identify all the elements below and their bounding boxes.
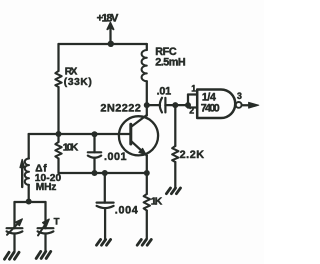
wire: RX bottom to base node — [57, 87, 59, 134]
wire: base line — [29, 133, 131, 135]
svg-text:.004: .004 — [115, 205, 138, 217]
wire: .01 to gate input — [165, 104, 188, 106]
svg-text:2: 2 — [189, 105, 194, 115]
power +18V lead — [109, 30, 111, 45]
arrow: left trimmer adjust — [7, 222, 20, 235]
capacitor C .001 straight plate — [88, 151, 101, 153]
transistor Q1 collector stroke — [131, 115, 147, 127]
svg-text:1K: 1K — [151, 196, 163, 207]
transistor Q1 base bar — [129, 124, 132, 144]
svg-text:(33K): (33K) — [64, 77, 92, 88]
svg-text:2N2222: 2N2222 — [100, 102, 140, 114]
capacitor C .004 curved plate — [97, 206, 114, 208]
ground: 2.2K — [166, 188, 180, 194]
transistor Q1 emitter stroke — [131, 141, 147, 156]
svg-text:7400: 7400 — [201, 102, 220, 114]
wire: 1K to ground — [146, 211, 148, 239]
arrow: crystal tuning — [21, 166, 23, 187]
capacitor C .001 curved plate — [88, 156, 101, 158]
capacitor: right trimmer T straight plate — [38, 227, 54, 229]
capacitor C .01 straight plate — [164, 98, 166, 113]
gate U1 1/4 7400 body — [197, 90, 235, 119]
wire: rail corner to RFC — [146, 44, 148, 50]
capacitor C .001 top lead — [93, 134, 95, 152]
wire: pin 1 lead — [188, 93, 197, 95]
junction: emitter bus at emitter column — [144, 170, 150, 176]
wire: bus to 1K — [146, 173, 148, 194]
svg-text:10K: 10K — [63, 142, 79, 153]
resistor 1K — [144, 194, 150, 211]
resistor RX — [55, 71, 61, 87]
wire: trimmer rail — [15, 201, 46, 203]
wire: RFC to collector node — [146, 81, 148, 115]
transistor Q1 emitter arrow — [139, 148, 147, 155]
junction: crystal to trimmer rail — [26, 199, 32, 205]
resistor 2.2K — [172, 146, 178, 162]
wire: base corner down to crystal — [28, 134, 30, 159]
wire: right trimmer bottom lead — [44, 234, 46, 252]
capacitor: left trimmer straight plate — [7, 227, 23, 229]
wire: 10K top lead — [57, 134, 59, 142]
junction: gate input split — [185, 102, 191, 108]
inductor: variable crystal coil — [25, 159, 29, 185]
capacitor: right trimmer T curved plate — [38, 231, 54, 233]
ground: emitter 1K — [137, 240, 151, 246]
svg-text:.01: .01 — [157, 85, 172, 97]
svg-text:+18V: +18V — [97, 12, 119, 24]
inductor RFC 2.5mH — [142, 50, 147, 81]
ground: right trimmer — [36, 252, 51, 259]
wire: left trimmer top lead — [13, 202, 15, 228]
wire: .004 bottom lead — [104, 208, 106, 239]
junction: base node at RX/10K — [56, 131, 62, 137]
wire: rail to RX top — [57, 44, 59, 71]
wire: .004 top lead — [104, 173, 106, 203]
svg-text:2.5mH: 2.5mH — [155, 57, 186, 69]
capacitor C .004 straight plate — [97, 202, 114, 204]
wire: collector node to .01 — [147, 104, 160, 106]
wire: 2.2K top lead — [174, 105, 176, 146]
junction: 2.2K tap — [172, 102, 178, 108]
wire: emitter to bus — [146, 156, 148, 174]
junction: base/.001 node — [92, 131, 98, 137]
svg-text:.001: .001 — [104, 151, 127, 163]
capacitor C .01 curved plate — [160, 98, 162, 113]
wire: gate output — [242, 104, 251, 106]
svg-text:MHz: MHz — [36, 182, 57, 193]
capacitor: left trimmer curved plate — [7, 231, 23, 233]
junction: +18V tap on rail — [108, 41, 114, 47]
arrow: output — [249, 102, 259, 108]
resistor 10K — [55, 142, 61, 159]
junction: .001 on emitter bus — [92, 170, 98, 176]
ground: left trimmer — [5, 252, 20, 259]
gate U1 output bubble — [236, 102, 242, 108]
capacitor C .001 bottom lead — [93, 158, 95, 173]
wire: 2.2K to ground — [174, 162, 176, 187]
wire: pin 2 lead — [188, 106, 197, 108]
svg-text:2.2K: 2.2K — [180, 149, 205, 161]
transistor Q1 2N2222 circle — [119, 116, 158, 155]
wire: left trimmer bottom lead — [13, 234, 15, 252]
junction: collector/.01 node — [144, 102, 150, 108]
wire: +18V supply rail — [59, 43, 147, 45]
power +18V arrow — [107, 23, 113, 30]
ground: .004 — [97, 240, 111, 246]
wire: crystal bottom lead — [28, 185, 30, 202]
wire: gate input stub — [187, 95, 189, 108]
svg-text:3: 3 — [237, 91, 242, 101]
junction: .004 on emitter bus — [102, 170, 108, 176]
svg-text:1: 1 — [191, 84, 196, 94]
svg-text:T: T — [54, 216, 60, 227]
wire: right trimmer top lead — [44, 202, 46, 228]
arrow: right trimmer adjust — [38, 222, 47, 235]
wire: 10K bottom to emitter bus — [59, 159, 147, 174]
